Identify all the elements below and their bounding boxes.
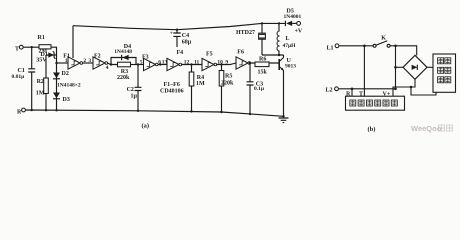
wire T stub (363, 46, 365, 96)
svg-text:R: R (17, 109, 22, 115)
svg-text:L: L (286, 36, 290, 42)
svg-text:L2: L2 (326, 88, 333, 94)
svg-text:F1: F1 (63, 53, 70, 59)
svg-text:D2: D2 (62, 71, 69, 77)
svg-text:3: 3 (88, 58, 91, 64)
svg-text:WeeQoo: WeeQoo (411, 124, 442, 133)
capacitor C3 0.1u (247, 63, 254, 114)
diode D2 (53, 73, 60, 79)
diode D5 1N4001 (284, 21, 286, 26)
wire to F1 (57, 62, 69, 64)
svg-text:F5: F5 (206, 52, 213, 58)
node (110, 63, 112, 65)
svg-text:F2: F2 (94, 53, 101, 59)
svg-text:R1: R1 (38, 35, 45, 41)
svg-text:220k: 220k (117, 75, 130, 81)
svg-text:C4: C4 (182, 33, 189, 39)
svg-text:F3: F3 (142, 55, 149, 61)
svg-text:F4: F4 (177, 50, 184, 56)
resistor R3 220k (118, 62, 131, 67)
svg-text:1µ: 1µ (131, 93, 138, 99)
diode D4 branch (111, 58, 136, 65)
piezo sounder HTD27 (258, 23, 266, 33)
wire T to R1 (23, 46, 39, 48)
bridge rectifier (403, 55, 427, 79)
capacitor C2 1u (135, 65, 142, 111)
svg-text:4: 4 (106, 65, 109, 71)
wire F6 out (251, 62, 280, 64)
node (C1 tap) (31, 46, 33, 48)
svg-text:CD40106: CD40106 (160, 89, 184, 95)
capacitor C1 (28, 47, 35, 110)
wire L2 (338, 88, 395, 90)
transistor U 9013 (278, 59, 280, 70)
wire bridge bottom to V+ (393, 79, 415, 96)
resistor R2 1M (45, 55, 47, 78)
svg-text:220k: 220k (221, 81, 234, 87)
inverter F2 (93, 57, 108, 69)
ground (282, 115, 284, 117)
wire switch to bridge top (390, 46, 417, 56)
diode D3 (53, 93, 60, 99)
svg-text:R5: R5 (225, 74, 232, 80)
svg-text:C2: C2 (127, 87, 134, 93)
inverter F1 (68, 57, 83, 69)
box speech circuit (433, 54, 456, 92)
svg-text:2: 2 (83, 58, 86, 64)
svg-text:HTD27: HTD27 (236, 30, 255, 36)
box on-hook ring circuit (346, 96, 405, 110)
wire bridge left (396, 66, 404, 68)
wire riser to L2 line (395, 46, 397, 89)
terminal R (22, 108, 26, 112)
wire R stub (351, 89, 353, 96)
svg-text:D3: D3 (63, 97, 70, 103)
wire F5-F6 (217, 63, 236, 65)
inverter F5 (202, 58, 217, 70)
svg-text:+: + (170, 31, 173, 37)
wire loop to right box bottom (410, 86, 413, 89)
svg-text:F6: F6 (237, 50, 244, 56)
resistor R5 220k (221, 65, 223, 113)
svg-text:K: K (381, 35, 386, 41)
wire rail to F1 (72, 26, 74, 58)
svg-text:15k: 15k (258, 69, 268, 75)
svg-text:R2: R2 (37, 79, 44, 85)
svg-text:9: 9 (225, 59, 228, 65)
inverter F6 (236, 57, 251, 69)
wire L1 to switch (339, 45, 373, 47)
svg-text:1N4148: 1N4148 (114, 49, 132, 55)
node T tap (363, 45, 366, 48)
svg-text:R6: R6 (259, 57, 266, 63)
inverter F4 (167, 58, 182, 70)
svg-text:F1–F6: F1–F6 (164, 82, 180, 88)
svg-text:1M: 1M (196, 81, 205, 87)
wire F2 out (108, 63, 118, 65)
wire F3-F4 (158, 64, 167, 66)
node F1 input (55, 62, 57, 64)
svg-text:1M: 1M (36, 90, 45, 96)
capacitor C4 68u (173, 30, 180, 47)
wire F1-F2 (83, 62, 93, 64)
wire F4-F5 (182, 64, 202, 66)
svg-text:T: T (15, 47, 19, 53)
resistor R4 1M (191, 65, 193, 112)
bottom rail (25, 110, 283, 116)
resistor R6 15k (255, 62, 269, 67)
wire R1 to D-chain vertical (51, 47, 57, 110)
svg-text:1N4148×2: 1N4148×2 (57, 83, 81, 89)
svg-text:L1: L1 (327, 45, 334, 51)
svg-text:47µH: 47µH (283, 43, 297, 49)
inverter F3 (144, 58, 159, 70)
svg-text:1N4001: 1N4001 (284, 14, 302, 20)
zener diode D1 35V (46, 54, 57, 56)
node riser tap (394, 45, 397, 48)
svg-text:12: 12 (184, 60, 190, 66)
switch K (373, 44, 376, 47)
svg-text:0.01µ: 0.01µ (12, 74, 26, 80)
inductor L 47uH (278, 23, 280, 55)
svg-text:(b): (b) (368, 126, 376, 133)
terminal +V (297, 22, 301, 26)
svg-text:0.1µ: 0.1µ (254, 86, 265, 92)
svg-text:11: 11 (194, 60, 199, 66)
wire bridge right (427, 66, 433, 68)
resistor R1 (39, 45, 51, 49)
top supply rail (73, 23, 285, 29)
svg-text:68µ: 68µ (182, 40, 192, 46)
wire to F3 (131, 64, 144, 66)
svg-text:9013: 9013 (285, 64, 296, 70)
svg-text:(a): (a) (142, 123, 150, 130)
svg-text:+V: +V (295, 29, 303, 35)
